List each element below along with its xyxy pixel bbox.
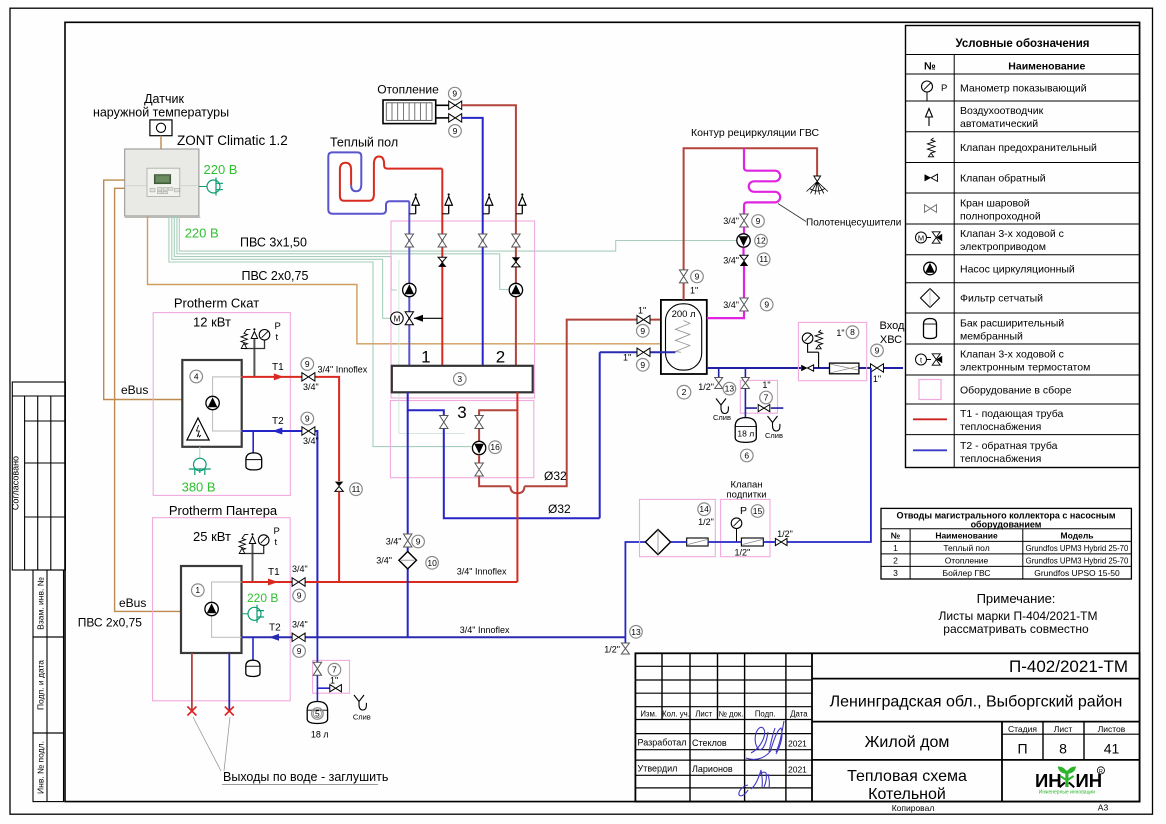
svg-text:9: 9 bbox=[640, 326, 645, 336]
svg-text:Слив: Слив bbox=[765, 431, 783, 440]
warm floor coil supply (red) bbox=[340, 157, 442, 201]
svg-text:200 л: 200 л bbox=[672, 309, 696, 320]
pipe 2 warm floor supply riser bbox=[441, 169, 443, 366]
legend symbol: assembled equipment box bbox=[919, 380, 941, 400]
svg-text:Оборудование в сборе: Оборудование в сборе bbox=[960, 384, 1072, 396]
boiler Pantera body bbox=[181, 566, 242, 653]
svg-text:Клапан 3-х ходовой с: Клапан 3-х ходовой с bbox=[960, 228, 1064, 240]
svg-text:ПВС 3х1,50: ПВС 3х1,50 bbox=[240, 235, 307, 249]
svg-text:P: P bbox=[740, 505, 747, 517]
svg-text:4: 4 bbox=[194, 372, 199, 382]
node 4 bbox=[190, 370, 203, 383]
svg-text:13: 13 bbox=[631, 627, 641, 637]
svg-text:Инженерные инновации: Инженерные инновации bbox=[1039, 790, 1095, 796]
svg-text:Клапан предохранительный: Клапан предохранительный bbox=[960, 142, 1097, 154]
make-up branch riser bbox=[788, 368, 871, 542]
tank coil bbox=[675, 321, 690, 353]
svg-text:1/2": 1/2" bbox=[777, 529, 793, 539]
svg-text:3/4": 3/4" bbox=[386, 537, 402, 547]
towel radiator serpentine bbox=[744, 148, 780, 214]
svg-text:M: M bbox=[918, 234, 924, 243]
INZHIN logo bbox=[1035, 766, 1105, 795]
svg-text:П-402/2021-ТМ: П-402/2021-ТМ bbox=[1009, 657, 1128, 676]
valve pipe 1 bbox=[405, 234, 413, 247]
svg-text:9: 9 bbox=[305, 414, 310, 424]
svg-text:Копировал: Копировал bbox=[892, 803, 935, 813]
wire PVS 3x1.50 to pump 12 bbox=[179, 216, 736, 251]
controller ZONT Climatic 1.2 bbox=[125, 149, 201, 218]
pump 16 bbox=[472, 441, 485, 454]
svg-text:Датчик: Датчик bbox=[144, 92, 184, 106]
svg-text:3/4" Innoflex: 3/4" Innoflex bbox=[318, 365, 368, 375]
svg-text:P: P bbox=[275, 321, 281, 332]
drain valve 13 bbox=[718, 368, 720, 378]
svg-text:3/4": 3/4" bbox=[723, 216, 739, 226]
expansion tank 6 (18 l) bbox=[735, 418, 756, 443]
svg-text:15: 15 bbox=[753, 506, 763, 516]
svg-text:2: 2 bbox=[496, 348, 505, 367]
svg-text:теплоснабжения: теплоснабжения bbox=[960, 453, 1041, 465]
svg-text:9: 9 bbox=[764, 300, 769, 310]
svg-text:9: 9 bbox=[416, 537, 421, 547]
left margin stamp: Vzam inv box bbox=[33, 570, 64, 637]
svg-text:Теплый пол: Теплый пол bbox=[943, 543, 989, 553]
valve 9 riser bbox=[679, 270, 687, 283]
svg-text:Манометр показывающий: Манометр показывающий bbox=[960, 82, 1087, 94]
svg-text:автоматический: автоматический bbox=[960, 118, 1038, 130]
svg-text:Grundfos UPM3 Hybrid 25-70: Grundfos UPM3 Hybrid 25-70 bbox=[1026, 544, 1129, 553]
svg-text:1: 1 bbox=[893, 543, 898, 553]
valve pipe 4 bbox=[512, 234, 520, 247]
svg-text:Ø32: Ø32 bbox=[544, 469, 567, 483]
svg-text:2021: 2021 bbox=[788, 765, 807, 775]
electric hazard triangle bbox=[187, 418, 209, 440]
equipment box Protherm Skat bbox=[153, 313, 290, 496]
svg-text:Воздухоотводчик: Воздухоотводчик bbox=[960, 105, 1044, 117]
svg-text:eBus: eBus bbox=[119, 596, 146, 610]
expansion tank Pantera bbox=[252, 637, 254, 660]
svg-text:Ø32: Ø32 bbox=[548, 502, 571, 516]
svg-text:1/2": 1/2" bbox=[698, 382, 714, 392]
svg-text:1: 1 bbox=[195, 585, 200, 595]
svg-text:Отопление: Отопление bbox=[945, 555, 989, 565]
svg-text:Подп. и дата: Подп. и дата bbox=[36, 660, 46, 710]
svg-text:рассматривать совместно: рассматривать совместно bbox=[943, 622, 1089, 636]
title block grid bbox=[635, 653, 1139, 801]
svg-text:Условные обозначения: Условные обозначения bbox=[955, 38, 1089, 50]
pump inside Pantera bbox=[205, 602, 218, 615]
svg-text:1/2": 1/2" bbox=[698, 517, 714, 527]
legend symbol: gauge bbox=[922, 81, 933, 92]
svg-text:Слив: Слив bbox=[713, 413, 731, 422]
svg-text:3/4" Innoflex: 3/4" Innoflex bbox=[457, 567, 507, 577]
svg-text:2: 2 bbox=[682, 387, 687, 397]
svg-text:1: 1 bbox=[421, 348, 430, 367]
svg-text:Grundfos UPM3 Hybrid 25-70: Grundfos UPM3 Hybrid 25-70 bbox=[1026, 556, 1129, 565]
check valve 11 bbox=[335, 482, 343, 487]
svg-text:Контур рециркуляции ГВС: Контур рециркуляции ГВС bbox=[691, 127, 820, 139]
svg-text:Лист: Лист bbox=[695, 710, 712, 719]
left margin stamp: Soglasovano group bbox=[12, 382, 65, 570]
svg-text:Стадия: Стадия bbox=[1008, 724, 1037, 734]
svg-text:16: 16 bbox=[490, 442, 500, 452]
wire to pump 1 bbox=[174, 216, 396, 290]
hot water riser from tank bbox=[684, 148, 818, 300]
svg-text:Т1 - подающая труба: Т1 - подающая труба bbox=[960, 408, 1063, 420]
legend symbol: filter bbox=[921, 289, 940, 308]
svg-text:мембранный: мембранный bbox=[960, 330, 1023, 342]
valve 9 recirc top bbox=[740, 214, 748, 227]
valve 9 radiator top bbox=[449, 101, 462, 109]
svg-text:11: 11 bbox=[759, 254, 768, 264]
warm floor coil return (blue) bbox=[328, 152, 409, 213]
pipe T2 Skat bbox=[242, 430, 302, 432]
left margin stamp: Podp i data box bbox=[33, 637, 64, 733]
svg-text:Клапан обратный: Клапан обратный bbox=[960, 173, 1046, 185]
svg-text:Protherm Скат: Protherm Скат bbox=[174, 296, 259, 311]
svg-text:Насос циркуляционный: Насос циркуляционный bbox=[960, 264, 1075, 276]
pipe 4 riser bbox=[515, 214, 517, 366]
drain branch bbox=[317, 675, 329, 688]
svg-text:Тепловая схема: Тепловая схема bbox=[847, 768, 967, 785]
drain funnel near tank 5 bbox=[354, 695, 366, 710]
leader lines to note bbox=[193, 717, 230, 771]
tank return line blue bbox=[600, 351, 676, 353]
legend table (uslovnye oboznacheniya) bbox=[906, 26, 1140, 468]
valve pipe 3 bbox=[479, 234, 487, 247]
svg-text:ПВС 2х0,75: ПВС 2х0,75 bbox=[78, 616, 143, 630]
equipment box manifold assembly bbox=[391, 221, 535, 398]
pipe 3 from radiator (return) bbox=[462, 118, 483, 214]
svg-text:1": 1" bbox=[623, 353, 631, 363]
svg-text:220 В: 220 В bbox=[204, 162, 238, 177]
outdoor temperature sensor bbox=[150, 120, 172, 136]
svg-text:Листы марки П-404/2021-ТМ: Листы марки П-404/2021-ТМ bbox=[939, 609, 1098, 623]
mesh filter bbox=[830, 363, 859, 374]
svg-text:3: 3 bbox=[457, 403, 466, 422]
svg-text:Наименование: Наименование bbox=[1008, 61, 1085, 73]
svg-text:9: 9 bbox=[297, 591, 302, 601]
svg-text:Котельной: Котельной bbox=[868, 786, 946, 803]
loop3 red run with hop to riser bbox=[479, 320, 661, 487]
svg-text:3/4": 3/4" bbox=[723, 300, 739, 310]
wire sensor to controller bbox=[160, 136, 162, 149]
svg-text:Стеклов: Стеклов bbox=[692, 738, 727, 748]
svg-text:электроприводом: электроприводом bbox=[960, 241, 1046, 253]
svg-text:10: 10 bbox=[427, 558, 437, 568]
svg-text:Изм.: Изм. bbox=[640, 710, 657, 719]
boiler internal pipe bbox=[212, 582, 242, 637]
manifold collector 3 bbox=[392, 366, 533, 393]
svg-text:P: P bbox=[274, 526, 280, 537]
svg-text:T1: T1 bbox=[272, 362, 284, 373]
svg-text:Ларионов: Ларионов bbox=[692, 764, 733, 774]
valve 9 Pantera T1 bbox=[292, 578, 305, 586]
svg-text:Кран шаровой: Кран шаровой bbox=[960, 197, 1030, 209]
pipe T1 Skat bbox=[242, 376, 302, 378]
svg-text:220 В: 220 В bbox=[185, 226, 219, 241]
svg-text:12: 12 bbox=[756, 236, 766, 246]
equipment box loop 3 assembly bbox=[390, 401, 533, 478]
valve 7 vertical bbox=[313, 662, 321, 675]
svg-text:eBus: eBus bbox=[121, 383, 148, 397]
check valve inlet bbox=[801, 365, 807, 371]
svg-text:1/2'': 1/2'' bbox=[735, 548, 751, 558]
check valve pipe 4 bbox=[512, 257, 520, 262]
power plug 220V controller bbox=[199, 186, 207, 188]
svg-text:Выходы по воде - заглушить: Выходы по воде - заглушить bbox=[223, 770, 388, 784]
pale green wiring box bbox=[399, 260, 465, 433]
valve pipe 2 bbox=[438, 234, 446, 247]
valve 9 trunk bbox=[404, 534, 412, 547]
legend symbol: check valve bbox=[925, 174, 932, 181]
valve 9 inlet bbox=[871, 364, 884, 372]
leader to towel label bbox=[778, 204, 806, 222]
legend symbol: T2 line bbox=[913, 449, 947, 451]
svg-text:Отопление: Отопление bbox=[377, 83, 439, 97]
svg-text:11: 11 bbox=[352, 484, 361, 494]
svg-text:2: 2 bbox=[893, 555, 898, 565]
safety group Skat bbox=[253, 339, 255, 377]
equipment box inlet group 8 bbox=[798, 322, 866, 380]
svg-text:Примечание:: Примечание: bbox=[977, 591, 1056, 606]
svg-text:теплоснабжения: теплоснабжения bbox=[960, 421, 1041, 433]
title block texts bbox=[638, 657, 1129, 813]
pump inside Skat bbox=[206, 396, 219, 409]
svg-text:Grundfos UPSO 15-50: Grundfos UPSO 15-50 bbox=[1034, 568, 1120, 578]
boiler Skat body bbox=[182, 360, 241, 447]
valve loop3 red top bbox=[475, 416, 483, 429]
cross mark 1 bbox=[187, 707, 196, 716]
svg-text:ХВС: ХВС bbox=[880, 334, 902, 346]
svg-text:9: 9 bbox=[453, 126, 458, 136]
check valve 11 recirc bbox=[740, 255, 748, 260]
valve half inch bbox=[775, 538, 787, 545]
wire to M valve bbox=[172, 216, 391, 318]
svg-text:полнопроходной: полнопроходной bbox=[960, 210, 1041, 222]
wire to pump 16 bbox=[169, 216, 472, 447]
svg-text:12 кВт: 12 кВт bbox=[193, 315, 231, 330]
3-way motor valve bbox=[391, 312, 443, 325]
svg-text:41: 41 bbox=[1104, 741, 1120, 757]
wire eBus to Pantera bbox=[115, 188, 181, 611]
svg-text:электронным термостатом: электронным термостатом bbox=[960, 361, 1090, 373]
svg-text:Подп.: Подп. bbox=[755, 710, 776, 719]
pump loop 2 (pipe 4) bbox=[509, 283, 522, 296]
svg-text:1": 1" bbox=[330, 676, 338, 686]
svg-text:Утвердил: Утвердил bbox=[638, 764, 678, 774]
svg-text:9: 9 bbox=[640, 360, 645, 370]
legend symbol: T1 line bbox=[913, 418, 947, 420]
svg-text:А3: А3 bbox=[1098, 803, 1109, 813]
flow arrow T2 bbox=[272, 428, 282, 435]
valve 9 Skat T2 bbox=[302, 427, 315, 435]
svg-text:3/4": 3/4" bbox=[376, 556, 392, 566]
legend symbol: air vent bbox=[928, 117, 930, 126]
svg-text:ZONT Climatic 1.2: ZONT Climatic 1.2 bbox=[177, 133, 288, 148]
valve loop3 blue bbox=[440, 416, 448, 429]
svg-text:8: 8 bbox=[1059, 741, 1067, 757]
svg-text:9: 9 bbox=[297, 646, 302, 656]
inlet gauge and safety valve bbox=[808, 344, 819, 369]
wire to pump 4 bbox=[177, 216, 509, 290]
svg-text:Бойлер ГВС: Бойлер ГВС bbox=[943, 568, 991, 578]
valve 9 Skat T1 bbox=[302, 373, 315, 381]
svg-text:3/4" Innoflex: 3/4" Innoflex bbox=[460, 625, 510, 635]
DHW tank 200 l bbox=[661, 300, 707, 374]
strainer 14 bbox=[645, 530, 670, 555]
svg-text:Наименование: Наименование bbox=[935, 530, 998, 540]
svg-text:T2: T2 bbox=[269, 623, 281, 634]
pipe T2 Pantera / boiler return trunk bbox=[242, 636, 293, 638]
svg-text:Полотенцесушители: Полотенцесушители bbox=[806, 218, 901, 229]
air vent pipe 4 bbox=[516, 213, 522, 215]
radiator return stub bbox=[436, 117, 449, 119]
svg-text:3/4": 3/4" bbox=[292, 564, 308, 574]
legend symbol: expansion tank bbox=[924, 319, 937, 339]
signatures bbox=[739, 721, 784, 796]
blue trunk from manifold to boilers bbox=[407, 410, 409, 534]
svg-text:13: 13 bbox=[725, 384, 735, 394]
svg-text:1/2": 1/2" bbox=[604, 645, 620, 655]
svg-text:Дата: Дата bbox=[790, 710, 808, 719]
capped water outlets bbox=[191, 653, 193, 711]
air vent pipe 2 bbox=[442, 213, 448, 215]
svg-text:t: t bbox=[276, 332, 279, 343]
svg-text:7: 7 bbox=[764, 393, 769, 403]
svg-text:3/4": 3/4" bbox=[292, 620, 308, 630]
svg-text:оборудованием: оборудованием bbox=[971, 520, 1042, 530]
svg-text:9: 9 bbox=[452, 89, 457, 99]
valve 9 radiator bottom bbox=[449, 114, 462, 122]
svg-text:18 л: 18 л bbox=[737, 429, 754, 439]
svg-text:9: 9 bbox=[756, 216, 761, 226]
svg-text:9: 9 bbox=[305, 359, 310, 369]
node 1 bbox=[192, 584, 205, 597]
svg-text:18 л: 18 л bbox=[311, 730, 329, 740]
radiator supply stub bbox=[436, 104, 449, 106]
svg-text:№: № bbox=[924, 61, 936, 73]
legend symbol: ball valve bbox=[925, 205, 937, 213]
svg-text:220 В: 220 В bbox=[247, 591, 278, 605]
expansion tank Skat bbox=[252, 431, 254, 453]
equipment box 15 bbox=[721, 499, 770, 556]
legend symbol: pump bbox=[924, 262, 937, 275]
pump 12 recirc bbox=[737, 234, 750, 247]
svg-text:Согласовано: Согласовано bbox=[11, 456, 21, 510]
svg-text:Р: Р bbox=[941, 83, 947, 94]
svg-text:t: t bbox=[275, 537, 278, 548]
svg-text:T1: T1 bbox=[268, 567, 280, 578]
left margin stamp: Inv no podl box bbox=[33, 733, 64, 802]
svg-text:M: M bbox=[394, 314, 401, 323]
wire eBus to Skat bbox=[104, 180, 183, 399]
svg-text:T2: T2 bbox=[272, 416, 284, 427]
svg-text:П: П bbox=[1017, 741, 1027, 757]
svg-text:Слив: Слив bbox=[353, 713, 371, 722]
pipe to tank 5 bbox=[316, 688, 318, 703]
svg-text:9: 9 bbox=[695, 272, 700, 282]
svg-text:Protherm Пантера: Protherm Пантера bbox=[169, 503, 278, 518]
legend symbol: safety valve bbox=[928, 138, 936, 157]
svg-text:Разработал: Разработал bbox=[638, 738, 687, 748]
cold water main line bbox=[707, 367, 903, 369]
svg-text:Взам. инв. №: Взам. инв. № bbox=[36, 577, 46, 630]
equipment box valve 7 tank 6 bbox=[740, 380, 777, 413]
svg-text:7: 7 bbox=[332, 665, 337, 675]
equipment box Protherm Pantera bbox=[153, 518, 291, 701]
valve 9 recirc bottom bbox=[740, 298, 748, 311]
svg-text:Кол. уч.: Кол. уч. bbox=[662, 710, 690, 719]
svg-text:9: 9 bbox=[875, 345, 880, 355]
pump loop 1 bbox=[403, 283, 416, 296]
svg-text:Ленинградская обл., Выборгский: Ленинградская обл., Выборгский район bbox=[830, 694, 1123, 711]
svg-text:3/4": 3/4" bbox=[723, 256, 739, 266]
loop3 return blue from manifold bbox=[408, 392, 444, 416]
svg-text:Т2 - обратная труба: Т2 - обратная труба bbox=[960, 440, 1058, 452]
expansion tank 5 (18 l) bbox=[307, 702, 327, 724]
pump table (otvody kollektora) bbox=[881, 508, 1131, 579]
svg-text:№ док.: № док. bbox=[719, 710, 744, 719]
svg-text:3: 3 bbox=[457, 374, 462, 384]
svg-text:Модель: Модель bbox=[1061, 530, 1094, 540]
note primechanie bbox=[939, 591, 1098, 636]
svg-text:наружной температуры: наружной температуры bbox=[93, 106, 229, 120]
valve loop3 red bottom bbox=[475, 463, 483, 476]
pressure reducer 15 bbox=[741, 538, 763, 546]
svg-text:Клапан 3-х ходовой с: Клапан 3-х ходовой с bbox=[960, 348, 1064, 360]
air vent pipe 1 bbox=[409, 213, 415, 215]
safety group Pantera bbox=[252, 544, 254, 583]
pipe 3 riser bbox=[482, 214, 484, 366]
svg-text:380 В: 380 В bbox=[182, 480, 216, 495]
legend symbol: 3-way thermostat valve bbox=[916, 354, 943, 365]
svg-text:1": 1" bbox=[638, 306, 646, 316]
svg-text:Бак расширительный: Бак расширительный bbox=[960, 317, 1064, 329]
svg-text:1": 1" bbox=[873, 374, 881, 384]
svg-text:1": 1" bbox=[690, 286, 698, 296]
svg-text:Листов: Листов bbox=[1098, 724, 1126, 734]
pipe T1 Pantera / boiler supply trunk bbox=[242, 581, 293, 583]
svg-text:Фильтр сетчатый: Фильтр сетчатый bbox=[960, 293, 1043, 305]
air vent pipe 3 bbox=[483, 213, 489, 215]
svg-text:ПВС 2х0,75: ПВС 2х0,75 bbox=[242, 269, 309, 283]
equipment box valve 7 bbox=[313, 660, 350, 693]
trunk red continues below manifold bbox=[516, 392, 518, 582]
svg-text:2021: 2021 bbox=[788, 739, 807, 749]
radiator Otoplenie bbox=[383, 100, 436, 124]
svg-text:Теплый пол: Теплый пол bbox=[330, 136, 398, 150]
shower outlet bbox=[807, 176, 828, 195]
wire PVS 2x0,75 to tank thermostat bbox=[148, 216, 661, 344]
check valve pipe 2 bbox=[438, 257, 446, 262]
svg-text:Инв. № подл.: Инв. № подл. bbox=[36, 741, 46, 794]
legend symbol: 3-way motor valve bbox=[916, 232, 943, 243]
power plug 380V bbox=[199, 447, 201, 458]
pipe 1 warm floor return riser bbox=[408, 201, 410, 366]
svg-text:ИН: ИН bbox=[1035, 770, 1062, 791]
make-up riser and valve 13 bbox=[624, 637, 626, 643]
loop3 supply red bbox=[479, 410, 517, 416]
svg-text:Вход: Вход bbox=[880, 320, 905, 332]
equipment box 14 bbox=[640, 499, 716, 556]
filter 10 bbox=[399, 552, 417, 569]
svg-text:25 кВт: 25 кВт bbox=[193, 529, 231, 544]
svg-text:3/4": 3/4" bbox=[303, 382, 319, 392]
svg-text:1": 1" bbox=[762, 380, 770, 390]
cross mark 2 bbox=[225, 707, 234, 716]
pipe 4 from radiator (supply) bbox=[462, 105, 516, 214]
